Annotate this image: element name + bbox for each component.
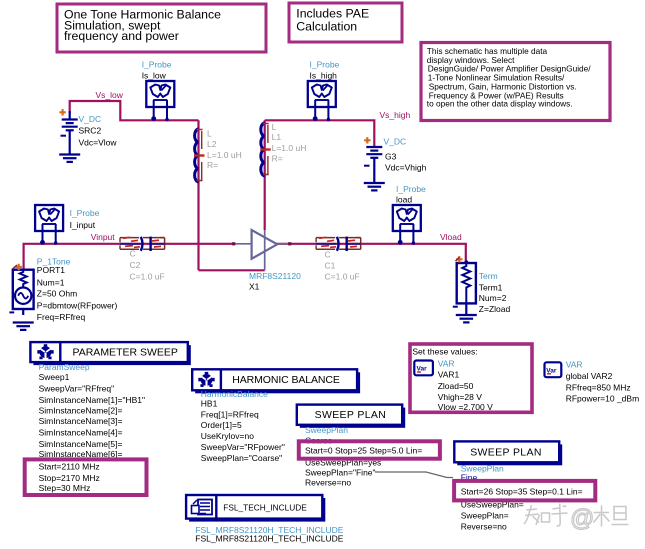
FSL_TECH_INCLUDE controller box [186,495,325,522]
svg-text:Zload=50: Zload=50 [438,381,474,391]
highlight box sweep plan 1 [299,441,440,458]
svg-text:PORT1: PORT1 [37,265,65,275]
op-amp X1 MRF8S21120 [232,230,301,292]
svg-text:HarmonicBalance: HarmonicBalance [201,389,268,399]
svg-text:VAR: VAR [566,360,583,370]
svg-text:I_Probe: I_Probe [396,184,426,194]
svg-text:FSL_MRF8S21120H_TECH_INCLUDE: FSL_MRF8S21120H_TECH_INCLUDE [195,533,344,543]
svg-text:Calculation: Calculation [296,19,357,33]
svg-text:I_Probe: I_Probe [142,60,172,70]
DC block C1 [316,237,361,282]
PARAMETER SWEEP controller box [30,342,190,365]
wire Vinput row [24,244,234,270]
svg-text:frequency and power: frequency and power [64,29,179,43]
I_Probe Is_low [142,60,175,122]
VAR VAR1 [414,359,493,413]
svg-text:L: L [207,129,212,139]
svg-text:Start=0 Stop=25 Step=5.0 Lin=: Start=0 Stop=25 Step=5.0 Lin= [305,446,422,456]
FSL include instance text [195,525,344,543]
svg-text:ParamSweep: ParamSweep [39,362,90,372]
svg-text:Num=1: Num=1 [37,277,65,287]
svg-text:SweepVar="RFpower": SweepVar="RFpower" [201,442,285,452]
node Vs_high [380,110,411,120]
svg-text:Vs_high: Vs_high [380,110,411,120]
svg-text:C=1.0 uF: C=1.0 uF [325,271,360,281]
wire amp bottom [199,269,265,271]
svg-text:SWEEP PLAN: SWEEP PLAN [470,447,542,459]
svg-text:SimInstanceName[3]=: SimInstanceName[3]= [39,416,123,426]
svg-text:Num=2: Num=2 [479,293,507,303]
svg-text:L: L [272,122,277,132]
VAR1 box: Set these values [410,344,532,412]
svg-text:Order[1]=5: Order[1]=5 [201,420,242,430]
svg-text:Freq[1]=RFfreq: Freq[1]=RFfreq [201,409,259,419]
svg-text:VAR1: VAR1 [438,370,460,380]
svg-text:global VAR2: global VAR2 [566,371,613,381]
note box: One Tone Harmonic Balance [57,4,266,52]
V_DC G3 [364,137,427,191]
svg-text:X1: X1 [249,282,260,292]
svg-text:L1: L1 [272,132,282,142]
wire Vload row [277,244,466,263]
svg-text:Reverse=no: Reverse=no [305,478,351,488]
svg-text:Reverse=no: Reverse=no [461,521,507,531]
svg-text:Vlow =2.700 V: Vlow =2.700 V [438,402,493,412]
svg-text:Vload: Vload [440,232,462,242]
svg-text:RFpower=10 _dBm: RFpower=10 _dBm [566,394,639,404]
svg-text:Includes PAE: Includes PAE [296,6,369,20]
svg-text:Stop=2170 MHz: Stop=2170 MHz [39,473,100,483]
ParamSweep parameter text [39,362,145,493]
V_DC SRC2 [59,109,117,162]
svg-text:P=dbmtow(RFpower): P=dbmtow(RFpower) [37,301,118,311]
svg-text:MRF8S21120: MRF8S21120 [249,271,301,281]
svg-text:Vhigh=28 V: Vhigh=28 V [438,392,483,402]
inductor L1 [260,122,306,176]
svg-text:V_DC: V_DC [79,114,102,124]
svg-text:load: load [396,195,412,205]
svg-text:C1: C1 [325,261,336,271]
svg-text:Step=30 MHz: Step=30 MHz [39,483,91,493]
wire L1 vertical [264,120,266,230]
DC block C2 [120,237,165,282]
svg-text:I_Probe: I_Probe [70,208,100,218]
svg-text:R=: R= [207,160,218,170]
svg-text:SimInstanceName[2]=: SimInstanceName[2]= [39,406,123,416]
I_Probe load [393,184,426,245]
svg-text:Start=2110 MHz: Start=2110 MHz [39,462,100,472]
node Vs_low [96,90,124,100]
Term Term1 [453,256,511,322]
svg-text:C: C [325,250,331,260]
svg-text:Is_high: Is_high [310,71,338,81]
svg-text:Sweep1: Sweep1 [39,372,70,382]
svg-text:Z=50 Ohm: Z=50 Ohm [37,289,77,299]
svg-text:FSL_TECH_INCLUDE: FSL_TECH_INCLUDE [223,503,307,513]
svg-text:UseKrylov=no: UseKrylov=no [201,431,254,441]
I_Probe I_input [35,205,100,245]
svg-text:SweepPlan="Coarse": SweepPlan="Coarse" [201,453,282,463]
SWEEP PLAN 1 controller box [297,405,405,428]
svg-text:L=1.0 uH: L=1.0 uH [207,150,242,160]
svg-text:HB1: HB1 [201,398,218,408]
svg-text:PARAMETER SWEEP: PARAMETER SWEEP [73,347,178,359]
highlight box sweep plan 2 [454,481,595,501]
svg-text:Vs_low: Vs_low [96,90,124,100]
FSL include icon [192,500,213,515]
svg-text:Start=26 Stop=35 Step=0.1 Lin=: Start=26 Stop=35 Step=0.1 Lin= [461,486,583,496]
P_1Tone PORT1 [9,256,117,330]
svg-text:C: C [130,249,136,259]
svg-text:L2: L2 [207,139,217,149]
svg-text:SweepPlan=: SweepPlan= [461,510,509,520]
svg-text:Z=Zload: Z=Zload [479,304,511,314]
wire L2 vertical [197,120,199,270]
svg-text:Vdc=Vlow: Vdc=Vlow [79,137,118,147]
svg-text:R=: R= [272,154,283,164]
svg-text:Vinput: Vinput [91,232,116,242]
svg-text:Is_low: Is_low [142,71,167,81]
highlight box param sweep start/stop [25,459,147,495]
inductor L2 [194,129,242,182]
node Vload [440,232,462,242]
svg-text:L=1.0 uH: L=1.0 uH [272,143,307,153]
wire Vs_high top [265,120,375,147]
svg-text:Freq=RFfreq: Freq=RFfreq [37,312,86,322]
svg-text:SweepPlan: SweepPlan [305,425,348,435]
svg-text:SRC2: SRC2 [79,125,102,135]
svg-text:SimInstanceName[4]=: SimInstanceName[4]= [39,428,123,438]
svg-text:I_Probe: I_Probe [310,60,340,70]
svg-text:SWEEP PLAN: SWEEP PLAN [315,409,387,421]
svg-text:@: @ [570,505,594,532]
watermark zhihu [524,504,629,533]
svg-text:RFfreq=850 MHz: RFfreq=850 MHz [566,382,631,392]
svg-text:SimInstanceName[1]="HB1": SimInstanceName[1]="HB1" [39,395,145,405]
svg-text:Vdc=Vhigh: Vdc=Vhigh [385,163,427,173]
svg-text:SimInstanceName[5]=: SimInstanceName[5]= [39,439,123,449]
VAR VAR2 [545,360,640,404]
SWEEP PLAN 2 controller box [454,441,562,465]
HarmonicBalance parameter text [201,389,285,463]
svg-text:G3: G3 [385,152,397,162]
svg-text:VAR: VAR [438,359,455,369]
svg-text:C2: C2 [130,260,141,270]
node Vinput [91,232,116,242]
svg-text:Term1: Term1 [479,282,503,292]
HARMONIC BALANCE controller box [192,369,360,393]
svg-text:SweepVar="RFfreq": SweepVar="RFfreq" [39,384,115,394]
SweepPlan Coarse parameter text [305,425,422,488]
wire link to sweep plan 2 [375,472,453,478]
svg-text:Set these values:: Set these values: [412,347,477,357]
SweepPlan Fine parameter text [461,464,583,532]
svg-text:HARMONIC BALANCE: HARMONIC BALANCE [232,374,340,386]
svg-text:Term: Term [479,271,498,281]
note box: Includes PAE Calculation [289,3,402,42]
note box: multiple data display windows [421,43,610,121]
svg-text:V_DC: V_DC [384,137,407,147]
svg-text:C=1.0 uF: C=1.0 uF [130,271,165,281]
I_Probe Is_high [308,60,340,122]
wire Vs_low top [70,101,199,120]
svg-text:I_input: I_input [70,220,96,230]
svg-text:SweepPlan="Fine": SweepPlan="Fine" [305,468,376,478]
svg-text:to open the other data display: to open the other data display windows. [427,99,573,109]
